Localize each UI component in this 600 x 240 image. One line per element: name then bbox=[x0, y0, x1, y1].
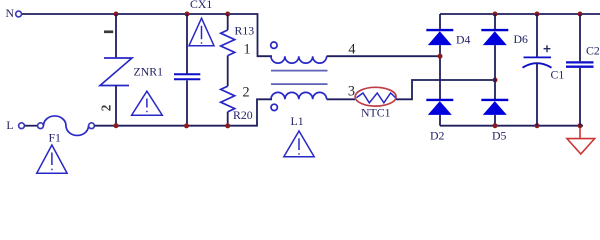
diode D6 bbox=[481, 29, 508, 31]
svg-text:2: 2 bbox=[243, 84, 250, 100]
capacitor CX1 plates bbox=[174, 73, 200, 75]
svg-text:L1: L1 bbox=[291, 114, 304, 128]
svg-text:4: 4 bbox=[348, 41, 355, 57]
wire: C1 bottom lead bbox=[536, 63, 538, 126]
wire: D2 anode to bottom rail bbox=[439, 115, 441, 126]
svg-text:N: N bbox=[6, 6, 15, 20]
svg-text:1: 1 bbox=[244, 41, 251, 57]
wire: R13 to R20 bbox=[227, 56, 229, 87]
wire: D5 anode to bottom rail bbox=[494, 115, 496, 126]
junction at C2 bottom / ground bbox=[578, 123, 583, 128]
core line 1 bbox=[271, 70, 328, 72]
wire: D4 cathode lead bbox=[439, 14, 441, 29]
wire: C2 top lead bbox=[579, 14, 581, 61]
junction at D5 bottom bbox=[493, 123, 498, 128]
warning triangle (CX1) bbox=[189, 18, 214, 46]
resistor R20 bbox=[221, 86, 235, 112]
svg-text:C2: C2 bbox=[586, 44, 600, 58]
junction at D6/D5 node bbox=[493, 78, 498, 83]
wire: bottom rail to choke pin 2 bbox=[116, 99, 272, 125]
wire: N rail from terminal to choke pin 1 bbox=[22, 14, 272, 56]
inductor L1 bottom winding bbox=[271, 92, 327, 99]
svg-text:C1: C1 bbox=[551, 68, 565, 82]
svg-text:NTC1: NTC1 bbox=[361, 106, 391, 120]
svg-text:L: L bbox=[6, 118, 13, 132]
fuse F1 bbox=[38, 123, 44, 129]
svg-text:CX1: CX1 bbox=[190, 0, 212, 11]
svg-text:R13: R13 bbox=[235, 24, 255, 38]
varistor ZNR1 bbox=[100, 58, 132, 86]
warning triangle (ZNR1) bbox=[132, 91, 163, 115]
svg-text:D4: D4 bbox=[456, 33, 471, 47]
wire: NTC to bridge (with jog up) bbox=[396, 80, 495, 99]
capacitor C1 (polarized) bbox=[524, 56, 552, 58]
junction at ZNR1 bottom bbox=[114, 123, 119, 128]
wire: ZNR1 top lead bbox=[115, 14, 117, 58]
wire: R20 bottom lead bbox=[227, 112, 229, 126]
warning triangle (L1) bbox=[284, 131, 314, 157]
resistor R13 bbox=[221, 30, 235, 56]
diode D5 bbox=[481, 99, 508, 101]
junction at C1 top bbox=[535, 12, 540, 17]
svg-text:R20: R20 bbox=[233, 108, 253, 122]
wire: C2 bottom lead bbox=[579, 68, 581, 126]
svg-text:2: 2 bbox=[99, 104, 114, 111]
junction at C2 top bbox=[578, 12, 583, 17]
diode D4 bbox=[426, 29, 453, 31]
svg-text:D6: D6 bbox=[514, 32, 529, 46]
svg-text:F1: F1 bbox=[49, 130, 62, 144]
junction at C1 bottom bbox=[535, 123, 540, 128]
wire: D4 anode to D2 cathode bbox=[439, 45, 441, 99]
junction at CX1 bottom bbox=[184, 123, 189, 128]
wire: CX1 bottom lead bbox=[186, 80, 188, 125]
core line 2 bbox=[271, 83, 328, 85]
polarity dot (top winding) bbox=[271, 42, 277, 48]
wire: ZNR1 bottom lead bbox=[115, 86, 117, 126]
wire: D6 cathode lead bbox=[494, 14, 496, 29]
junction at D4/D2 node (pin 4 wire) bbox=[438, 54, 443, 59]
wire: D6 anode to D5 cathode bbox=[494, 45, 496, 99]
pin number 1 (ZNR1, rotated) bbox=[104, 30, 113, 33]
wire: L terminal to fuse bbox=[25, 125, 38, 127]
wire: bottom rail (DC-) bbox=[440, 125, 583, 127]
plus sign (C1) bbox=[544, 45, 551, 52]
wire: fuse to bottom rail bbox=[95, 125, 117, 127]
inductor L1 top winding bbox=[271, 56, 327, 63]
wire: C1 top lead bbox=[536, 14, 538, 57]
svg-text:D2: D2 bbox=[430, 129, 445, 143]
polarity dot (bottom winding) bbox=[271, 104, 277, 110]
junction at D6 top bbox=[493, 12, 498, 17]
wire: CX1 top lead bbox=[186, 14, 188, 74]
warning triangle (F1) bbox=[37, 145, 67, 173]
svg-text:ZNR1: ZNR1 bbox=[134, 65, 164, 79]
capacitor C2 bbox=[566, 61, 594, 63]
wire: top rail (DC+) bbox=[440, 13, 600, 15]
svg-text:D5: D5 bbox=[492, 129, 507, 143]
thermistor NTC1 bbox=[355, 87, 396, 106]
diode D2 bbox=[426, 99, 453, 101]
wire: choke pin 3 to NTC bbox=[327, 98, 355, 100]
wire: R13 top lead bbox=[227, 14, 229, 30]
junction at R20 bottom bbox=[225, 123, 230, 128]
junction at ZNR1 top bbox=[114, 12, 119, 17]
junction at CX1 top bbox=[185, 12, 190, 17]
wire: choke pin 4 to bridge bbox=[327, 55, 440, 57]
ground bbox=[567, 128, 595, 154]
junction at R13 top bbox=[225, 12, 230, 17]
svg-text:3: 3 bbox=[348, 84, 355, 100]
